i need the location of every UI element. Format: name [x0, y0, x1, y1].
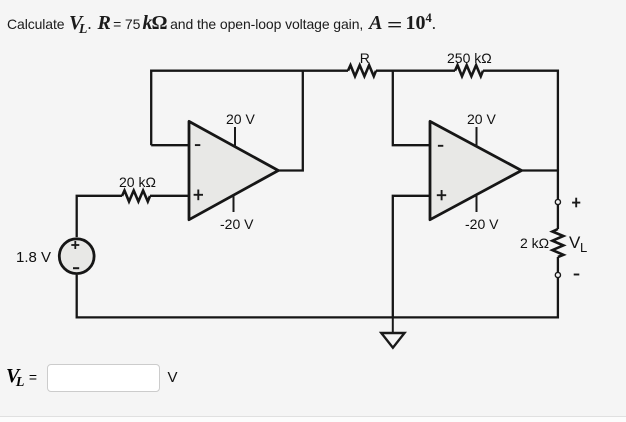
wire circle to load resistor [557, 205, 559, 229]
U2 supply stub top [476, 127, 478, 147]
U1 minus label [195, 144, 200, 146]
answer row [6, 363, 178, 392]
voltage source V1 1.8 V [59, 239, 94, 274]
bottom divider [0, 416, 626, 422]
op-amp U1 [189, 121, 278, 219]
svg-text:250 kΩ: 250 kΩ [447, 50, 492, 66]
label plus terminal [572, 202, 580, 204]
svg-text:20 V: 20 V [226, 111, 255, 127]
title [7, 11, 436, 38]
resistor R1 R [348, 65, 376, 76]
svg-text:20 V: 20 V [467, 111, 496, 127]
label minus terminal [574, 274, 580, 276]
U2 minus label [438, 145, 443, 147]
svg-text:R: R [360, 50, 370, 66]
wire source to 20k [77, 196, 122, 237]
U2 supply stub bottom [476, 195, 478, 212]
wire node R junction down to op2 inverting [393, 71, 430, 146]
svg-text:20 kΩ: 20 kΩ [119, 174, 156, 190]
wire bottom rail [77, 275, 558, 317]
op-amp U2 [430, 121, 522, 219]
resistor R3 20 kOhm [122, 191, 150, 202]
U1 plus label [194, 194, 203, 196]
wire op1 output up [278, 71, 303, 171]
wire between R and 250k [376, 70, 455, 72]
wire top feedback/series [151, 71, 348, 146]
U1 supply stub top [234, 127, 236, 147]
resistor R4 2 kOhm load [552, 229, 563, 257]
wire load resistor to bottom circle [557, 257, 559, 272]
resistor R2 250 kOhm [455, 65, 483, 76]
wire op2 plus input to ground rail [393, 196, 430, 318]
node output open circle top [555, 199, 560, 204]
wire 20k to op1 plus input [150, 195, 189, 197]
wire op2 output [521, 171, 558, 200]
U2 plus label [437, 194, 446, 196]
svg-text:-20 V: -20 V [465, 216, 499, 232]
ground [381, 317, 404, 347]
wire op1 inverting input [151, 144, 189, 146]
svg-text:2 kΩ: 2 kΩ [520, 235, 549, 251]
svg-text:1.8 V: 1.8 V [16, 249, 51, 266]
wire top right to corner [483, 71, 558, 171]
U1 supply stub bottom [233, 195, 235, 212]
node output open circle bottom [555, 272, 560, 277]
svg-text:-20 V: -20 V [220, 216, 254, 232]
svg-text:L: L [580, 240, 587, 255]
